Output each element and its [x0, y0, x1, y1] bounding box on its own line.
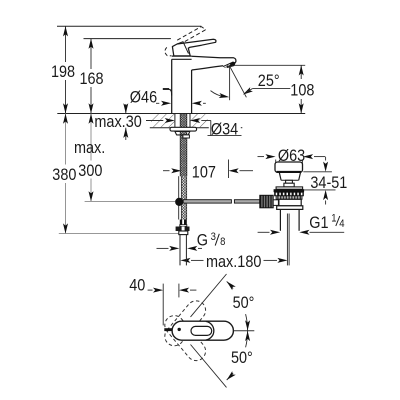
svg-text:8: 8: [220, 237, 225, 249]
svg-text:4: 4: [339, 219, 344, 231]
svg-text:Ø46: Ø46: [130, 89, 158, 107]
svg-text:300: 300: [78, 162, 102, 180]
svg-text:Ø34: Ø34: [211, 121, 239, 139]
svg-text:max.30: max.30: [94, 113, 142, 131]
svg-text:3: 3: [211, 231, 216, 243]
svg-text:G1: G1: [309, 214, 328, 232]
svg-text:1: 1: [331, 213, 336, 225]
svg-text:Ø63: Ø63: [278, 147, 306, 165]
svg-text:380: 380: [52, 166, 76, 184]
svg-text:50°: 50°: [231, 349, 253, 367]
svg-text:max.: max.: [74, 139, 105, 157]
svg-text:G: G: [197, 232, 208, 250]
svg-text:34-51: 34-51: [310, 174, 347, 192]
svg-text:198: 198: [51, 63, 75, 81]
svg-text:108: 108: [290, 81, 314, 99]
svg-text:25°: 25°: [258, 72, 280, 90]
svg-text:max.180: max.180: [206, 253, 262, 271]
svg-text:40: 40: [129, 276, 145, 294]
svg-text:107: 107: [192, 164, 216, 182]
svg-text:50°: 50°: [233, 294, 255, 312]
svg-text:168: 168: [80, 70, 104, 88]
